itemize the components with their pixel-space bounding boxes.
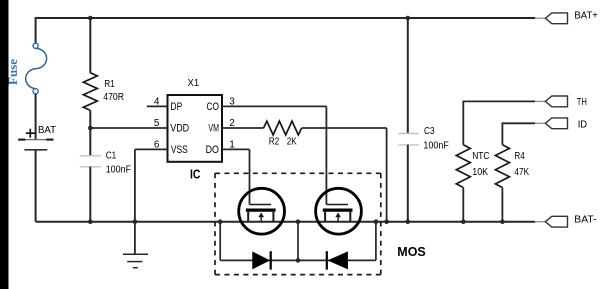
node: bottom rail / diode-right junction: [374, 219, 379, 224]
wire: grey stub into ID tag: [535, 122, 546, 124]
transistor Q1 (MOSFET): [239, 188, 285, 234]
svg-text:TH: TH: [577, 97, 587, 108]
pin 4 DP stub: [147, 105, 168, 107]
node: bottom rail / C3 junction: [406, 219, 411, 224]
node: diode rail mid junction: [296, 258, 301, 263]
wire: CO drop to Q2 gate: [325, 106, 327, 204]
wire: ID net: [502, 123, 535, 145]
wire: battery negative to bottom rail: [35, 150, 37, 222]
svg-text:VDD: VDD: [170, 123, 189, 135]
transistor Q2 (MOSFET): [316, 188, 362, 234]
connector tag BAT+: [545, 13, 567, 24]
svg-text:Fuse: Fuse: [5, 59, 20, 85]
svg-text:2K: 2K: [287, 137, 297, 148]
svg-text:1: 1: [229, 139, 235, 150]
svg-text:BAT-: BAT-: [574, 214, 596, 225]
svg-text:3: 3: [229, 97, 235, 108]
thermistor NTC: [456, 145, 470, 222]
wire: diode rail: [220, 259, 376, 261]
battery BAT: [18, 129, 53, 150]
node: bottom rail / C1 junction: [88, 219, 93, 224]
pin 6 VSS wire: [135, 148, 168, 150]
IC X1 box: [168, 95, 223, 162]
wire: VM drop to bottom rail: [386, 128, 388, 222]
wire: grey stub into TH tag: [535, 100, 546, 102]
svg-text:BAT+: BAT+: [574, 11, 598, 22]
svg-text:R4: R4: [514, 151, 525, 162]
svg-text:ID: ID: [578, 119, 587, 130]
svg-text:IC: IC: [190, 168, 200, 182]
resistor R2: [222, 121, 387, 135]
wire: top rail BAT+ net: [36, 18, 535, 44]
svg-text:NTC: NTC: [472, 151, 489, 162]
MOS dashed box: [215, 173, 381, 274]
node: bottom rail / R4 junction: [500, 219, 505, 224]
node: top rail / R1 junction: [88, 16, 93, 21]
wire: DO drop to Q1 gate: [249, 149, 251, 204]
node: bottom rail / NTC junction: [461, 219, 466, 224]
wire: diode rail mid stub: [297, 222, 299, 261]
connector tag TH: [545, 96, 567, 107]
svg-text:R2: R2: [269, 137, 280, 148]
svg-text:4: 4: [154, 97, 160, 108]
capacitor C1: [80, 128, 101, 222]
svg-text:DP: DP: [170, 101, 182, 113]
fuse: [26, 43, 47, 94]
svg-text:DO: DO: [206, 144, 219, 156]
svg-text:470R: 470R: [103, 92, 124, 103]
svg-text:C1: C1: [106, 150, 117, 161]
diode D1: [252, 251, 270, 269]
capacitor C3: [398, 18, 419, 222]
svg-text:R1: R1: [104, 79, 115, 90]
svg-text:CO: CO: [207, 101, 220, 113]
svg-text:BAT: BAT: [38, 125, 56, 136]
svg-text:MOS: MOS: [397, 245, 425, 259]
node: R1/VDD junction: [88, 126, 93, 131]
wire: VDD to pin 5: [90, 127, 167, 129]
node: top rail / C3 junction: [406, 16, 411, 21]
diode D2: [327, 251, 348, 269]
node: bottom rail / diode-left junction: [218, 219, 223, 224]
wire: TH net: [463, 101, 535, 144]
wire: grey stub into BAT+ tag: [535, 17, 546, 19]
svg-text:VM: VM: [208, 123, 219, 135]
wire: grey stub into BAT- tag: [535, 221, 546, 223]
pin 3 CO wire: [222, 105, 326, 107]
wire: diode rail left stub: [219, 222, 221, 261]
resistor R1: [83, 18, 97, 128]
svg-text:X1: X1: [188, 78, 200, 89]
node: bottom rail / VM junction: [384, 219, 389, 224]
node: bottom rail / ground junction: [133, 219, 138, 224]
ground: [123, 149, 148, 267]
node: bottom rail / diode-mid junction: [296, 219, 301, 224]
svg-text:6: 6: [154, 139, 160, 150]
pin 1 DO wire: [222, 148, 250, 150]
wire: diode rail right stub: [375, 222, 377, 261]
svg-text:10K: 10K: [472, 167, 488, 178]
connector tag ID: [545, 118, 567, 129]
wire: fuse to battery: [35, 94, 37, 139]
connector tag BAT-: [545, 216, 567, 227]
svg-text:47K: 47K: [514, 167, 529, 178]
svg-text:C3: C3: [424, 126, 435, 137]
wire: bottom rail BAT- net: [36, 221, 535, 223]
resistor R4: [495, 145, 509, 222]
svg-text:5: 5: [154, 118, 160, 129]
svg-text:100nF: 100nF: [106, 164, 131, 175]
svg-text:VSS: VSS: [171, 144, 188, 156]
svg-text:100nF: 100nF: [423, 140, 448, 151]
left black border bar: [0, 0, 9, 289]
